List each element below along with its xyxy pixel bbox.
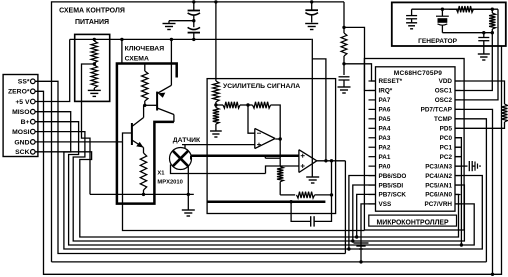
wire TCMP [455,119,486,262]
node U2 out feedback tap [330,159,333,162]
svg-text:IRQ*: IRQ* [379,88,393,95]
resistor R1 divider upper [91,41,97,63]
mcu left pin labels [379,78,407,208]
node sensor gnd [187,193,190,196]
wire MISO net [35,112,482,249]
wire VDD drop to reset [343,2,345,33]
svg-text:MISO: MISO [12,109,29,116]
wire sensor right output [190,156,192,160]
ground caps mid [163,21,176,30]
svg-text:СХЕМА КОНТРОЛЯ: СХЕМА КОНТРОЛЯ [59,8,125,15]
wire GND net [35,141,122,143]
wire rail2 +5V [70,38,312,40]
transistor Q1 PNP [157,85,174,122]
node top-rail cap column [192,0,195,3]
node U2 minus sensor join [0,0,1,1]
wire tap to left [82,64,95,194]
ground C3 [305,24,318,30]
wire base node to Q1 base [145,104,157,106]
svg-text:ПИТАНИЯ: ПИТАНИЯ [75,19,109,26]
wire Q2 base [123,133,132,142]
node gen right top [491,8,494,11]
label amplifier title [223,83,300,90]
node amp divider tap [214,103,217,106]
wire PB6/SDO [349,176,376,250]
wire OSC2 from gen [455,9,498,100]
wire RESET stub ext [0,0,1,1]
wire sensor top to U1 input [182,144,255,146]
wire PB7/SCK [357,194,376,237]
node top-rail C3 [310,0,313,3]
svg-text:SS*: SS* [18,79,30,86]
wire sensor top lead [184,145,186,149]
node caps-rail2 [192,38,195,41]
capacitor C5 filter [291,195,331,227]
wire MOSI net [35,132,464,241]
ground VSS [354,243,369,249]
wire branch to U2 output [312,59,326,161]
ground reset cap [338,87,351,93]
mcu right pin labels [421,78,453,208]
svg-text:PC2: PC2 [440,154,453,161]
svg-text:VDD: VDD [439,78,453,85]
svg-text:PA0: PA0 [379,163,391,170]
wire PC0-PC2 tie [455,138,461,245]
resistor R13 gen right [489,9,495,33]
wire +5V net to rail [35,39,70,101]
resistor R14 PD5 pullup [502,104,508,122]
svg-text:PA3: PA3 [379,135,391,142]
wire U1 out to Rmid [265,139,280,158]
svg-text:VSS: VSS [379,201,392,208]
capacitor C3 to ground [305,2,318,23]
wire PB5/SDI [353,185,376,241]
capacitor C6 gen left [406,9,417,23]
wire VDD to pullup [455,81,505,104]
resistor R10 mid [277,158,283,195]
wire top rail [52,2,345,262]
node U1 output [279,137,282,140]
svg-text:PC1: PC1 [440,144,453,151]
resistor R2 divider lower [91,65,97,88]
node rail2 keydrop1 [120,38,123,41]
wire gen top rail [412,8,498,10]
svg-text:PC4/AN2: PC4/AN2 [425,173,452,180]
svg-text:TCMP: TCMP [434,116,453,123]
connector J1 box [3,75,38,157]
resistor R7 amp divider lower [213,105,219,131]
wire U2 minus input [266,166,299,174]
svg-text:PC5/AN1: PC5/AN1 [425,182,452,189]
crystal Y1 [436,9,449,33]
wire TCAP [455,109,493,274]
node gen right bottom [491,31,494,34]
node key base node [143,104,146,107]
node VSS bus [359,260,362,263]
wire VSS down [361,204,376,262]
wire OSC1 from gen [455,33,492,91]
label key-circuit title [125,46,165,63]
label mcu part number [394,70,443,77]
resistor R5 reset pullup [341,33,347,56]
resistor R9 gain2 [240,102,271,108]
mcu right pin stubs [455,81,461,204]
node R4-gndrail [142,193,145,196]
wire rail2 corner to U2 supply [311,39,314,177]
svg-text:PA6: PA6 [379,107,391,114]
wire R14 to PD5 [455,122,505,128]
wire B+ net [35,122,474,245]
wire sensor left output [171,165,266,174]
wire reset to RESET* pin [344,64,376,81]
svg-text:PA1: PA1 [379,154,391,161]
label X1 [157,170,165,176]
wire sensor bottom lead [187,166,189,194]
svg-text:PB6/SDO: PB6/SDO [379,173,407,180]
generator box [392,2,506,46]
node toprail divider [214,0,217,3]
svg-text:OSC2: OSC2 [435,97,453,104]
svg-text:УСИЛИТЕЛЬ СИГНАЛА: УСИЛИТЕЛЬ СИГНАЛА [223,83,300,90]
label microcontroller box [369,215,457,226]
wire gnd line thick [207,200,325,203]
svg-text:PD7/TCAP: PD7/TCAP [421,107,453,114]
wire cap mid to ground [169,20,194,22]
wire R9 to op1 output [271,105,281,139]
wire SS* net [35,81,345,253]
wire U2 out down to bus [344,161,346,254]
node gnd line cap tap [289,200,292,203]
amplifier box [207,79,336,214]
connector J1 pin circles [31,79,36,154]
node feedback node [330,193,333,196]
wire ZERO* net [35,46,501,274]
svg-text:PB7/SCK: PB7/SCK [379,192,407,199]
node TCAP bus [491,273,494,276]
label power-control title [59,8,125,27]
node caps midpoint [192,19,195,22]
wire U2 output [317,160,346,162]
svg-text:RESET*: RESET* [379,78,403,85]
mcu left pin stubs [369,81,376,204]
svg-text:PB5/SDI: PB5/SDI [379,182,404,189]
node IRQ branch [342,26,345,29]
wire TCAP join [0,0,1,1]
svg-text:ZERO*: ZERO* [8,89,30,96]
ground sensor rail [182,194,195,216]
svg-text:B+: B+ [21,119,30,126]
wire key thick outline [117,64,177,204]
capacitor C7 gen [478,33,489,54]
ground power divider [88,88,101,96]
resistor R4 key emitter [140,153,146,194]
wire U1 inverting input [248,105,255,133]
svg-text:PD5: PD5 [440,126,453,133]
svg-text:MC68HC705P9: MC68HC705P9 [394,70,443,77]
svg-text:PA5: PA5 [379,116,391,123]
svg-text:MPX2010: MPX2010 [157,180,182,186]
mcu container box [364,59,464,231]
wire ground rail [90,193,194,195]
wire U1 output [275,138,280,140]
svg-text:PA4: PA4 [379,126,391,133]
svg-text:PC0: PC0 [440,135,453,142]
capacitor C1 polarized upper [188,2,200,21]
svg-text:ГЕНЕРАТОР: ГЕНЕРАТОР [418,38,458,45]
node SDO bus [347,247,350,250]
svg-text:GND: GND [14,139,29,146]
wire R5 to cap [343,56,345,75]
label microcontroller [377,219,449,226]
wire rail2 to key right [170,39,172,85]
node gen cap2 tap [482,31,485,34]
svg-text:МИКРОКОНТРОЛЛЕР: МИКРОКОНТРОЛЛЕР [377,219,449,226]
resistor R12 gen top [449,6,493,12]
node rail2-R1 [93,38,96,41]
wire GND net down and right [123,142,365,231]
op-amp U1 [255,128,275,148]
wire IRQ branch [344,27,376,90]
wire gen bottom rail [442,32,492,34]
ground U2 [306,177,319,183]
wire Q2 emitter to R4 [143,148,145,154]
node R1-R2 tap [93,62,96,65]
node R8-R9 [246,103,249,106]
node rail2 keydrop2 [170,38,173,41]
ground C6 [406,23,417,29]
node gen crystal top [441,8,444,11]
capacitor C2 polarized lower [188,21,200,40]
svg-text:+5 V: +5 V [15,99,30,106]
resistor R3 key base [142,64,148,106]
power-control box [75,34,110,101]
svg-text:MOSI: MOSI [12,129,29,136]
wire rail2 to key left [121,39,123,63]
svg-text:СХЕМА: СХЕМА [125,55,149,62]
svg-text:PA2: PA2 [379,144,391,151]
wire feedback up [331,161,333,195]
wire R11 to node [315,194,332,196]
node U2 out supply tap [324,159,327,162]
connector J1 pin labels [8,79,30,157]
svg-text:PC7/VRH: PC7/VRH [425,201,453,208]
svg-text:SCK: SCK [15,149,29,156]
sensor X1 MPX2010 bridge symbol [170,148,192,170]
label MPX2010 [157,180,182,186]
transistor Q2 NPN [132,105,144,147]
svg-text:ДАТЧИК: ДАТЧИК [173,137,201,144]
ground C7 [478,54,490,60]
ground amp divider [210,131,222,137]
node PC0 tie bus [460,243,463,246]
label sensor title [173,137,201,144]
label generator title [418,38,458,45]
svg-text:КЛЮЧЕВАЯ: КЛЮЧЕВАЯ [125,46,165,53]
svg-text:PC6/AN0: PC6/AN0 [425,192,452,199]
resistor R11 feedback [297,192,315,198]
op-amp U2 [299,150,317,173]
svg-text:PA7: PA7 [379,97,391,104]
svg-text:X1: X1 [157,170,165,176]
wire toprail to divider [215,2,217,81]
svg-text:PC3/AN3: PC3/AN3 [425,163,452,170]
wire U2 plus input thick [191,154,299,157]
resistor R6 amp divider upper [213,81,219,105]
wire feedback rail [280,194,295,196]
node SCK bus [355,235,358,238]
node reset junction [342,62,345,65]
svg-text:OSC1: OSC1 [435,88,453,95]
mcu chip box [376,67,456,211]
wire top rail bottom row [52,261,487,263]
node SDI bus [351,239,354,242]
wire SCK net [35,152,458,237]
capacitor C4 reset [339,77,350,87]
capacitor C8 PC3 filter with ground [455,161,480,171]
node R10 feedback [0,0,1,1]
resistor R8 gain1 [216,102,240,108]
